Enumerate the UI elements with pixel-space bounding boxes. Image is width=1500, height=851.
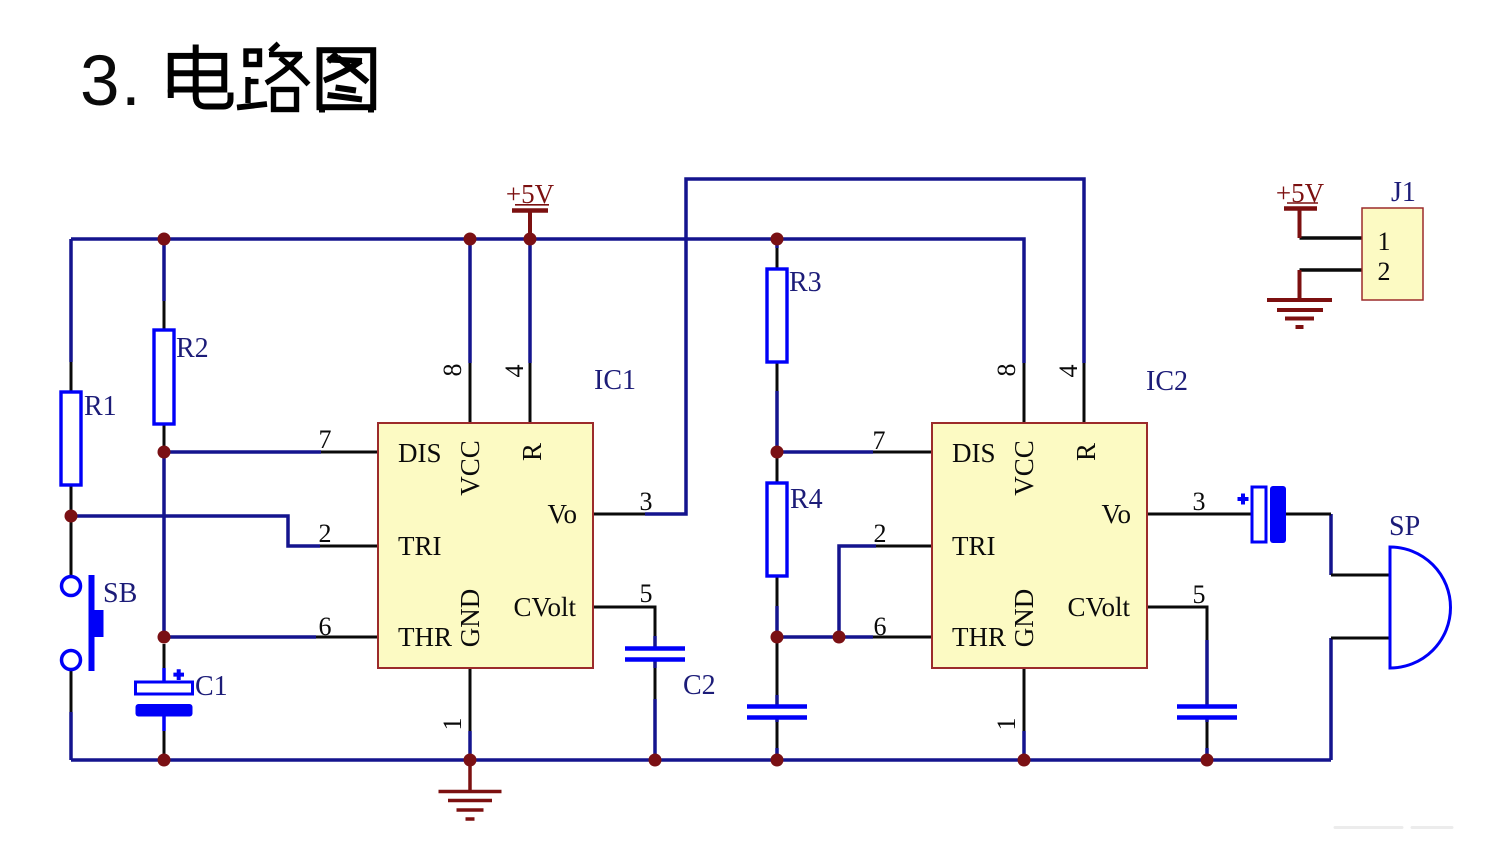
wire left branch down to R1 [69, 239, 73, 362]
+5V symbol at IC1 [512, 205, 549, 239]
node R1-TRI1 [65, 510, 78, 523]
node THR1-C1 [158, 631, 171, 644]
svg-text:8: 8 [992, 364, 1021, 377]
wire SB bottom to ground rail [69, 712, 73, 760]
wire R2 top lead [162, 239, 166, 301]
svg-text:2: 2 [319, 519, 332, 548]
wire speaker bottom stub [1331, 637, 1390, 640]
speaker SP [1390, 547, 1451, 668]
svg-text:4: 4 [500, 365, 529, 378]
svg-text:R4: R4 [790, 484, 823, 515]
node R4-THR2 [771, 631, 784, 644]
IC1 pin names [398, 438, 577, 652]
wire IC2 VCC pin8 stub [1023, 363, 1026, 423]
wire IC1 THR stub [316, 636, 378, 639]
resistor R3 [767, 269, 787, 362]
wire R4 bottom [775, 606, 779, 637]
IC2 pin numbers [873, 364, 1206, 731]
svg-text:IC2: IC2 [1146, 366, 1188, 397]
wire R2 leads [163, 301, 166, 452]
svg-text:THR: THR [952, 622, 1006, 652]
wire C4 to speaker top [1286, 514, 1390, 575]
wire THR1 horizontal [164, 635, 316, 639]
resistor R1 [61, 392, 81, 485]
wire R2 bottom down to THR1 node [162, 452, 166, 637]
black pin stubs and leads [71, 238, 1390, 754]
svg-text:SB: SB [103, 578, 137, 609]
node rail-R2 [158, 233, 171, 246]
svg-text:.: . [121, 42, 141, 121]
wire IC2 GND pin1 stub [1023, 668, 1026, 731]
+5V symbol at J1 [1284, 203, 1318, 238]
svg-text:C1: C1 [195, 671, 228, 702]
wire IC1 pin8 from rail [468, 239, 472, 363]
svg-text:3: 3 [1193, 487, 1206, 516]
svg-text:SP: SP [1389, 511, 1420, 542]
wire C3 stems [775, 695, 779, 760]
wire R4 leads [776, 452, 779, 606]
wire DIS2 horizontal [777, 450, 873, 454]
capacitor C4 electrolytic coupling [1238, 486, 1287, 543]
wire IC1 Vo pin3 stub [593, 513, 645, 516]
wire SB leads [70, 516, 73, 712]
node R2-DIS1 [158, 446, 171, 459]
resistor R2 [154, 330, 174, 424]
svg-text:TRI: TRI [398, 531, 442, 561]
svg-text:R3: R3 [789, 267, 822, 298]
wire R3 top lead [775, 239, 779, 248]
svg-text:7: 7 [873, 426, 886, 455]
svg-text:THR: THR [398, 622, 452, 652]
svg-text:3: 3 [80, 42, 120, 121]
svg-text:6: 6 [874, 612, 887, 641]
faint watermark remnants [1335, 826, 1452, 829]
node rail-C5 [1201, 754, 1214, 767]
node rail-pin8 IC1 [464, 233, 477, 246]
wire IC2 Vo pin3 stub to C4 [1147, 513, 1252, 516]
wire top +5V rail [71, 239, 1024, 363]
J1 pin numbers [1378, 227, 1391, 286]
wire IC1 VCC pin8 stub [469, 363, 472, 423]
svg-text:2: 2 [1378, 257, 1391, 286]
svg-text:1: 1 [992, 718, 1021, 731]
svg-text:DIS: DIS [952, 438, 996, 468]
svg-text:5: 5 [640, 579, 653, 608]
pushbutton SB [62, 575, 104, 671]
svg-text:6: 6 [319, 612, 332, 641]
wire IC1 DIS stub [321, 451, 378, 454]
IC1 pin numbers [319, 364, 653, 731]
title text "3." [80, 42, 141, 121]
wire IC2 DIS stub [873, 451, 932, 454]
wire R3 bottom to DIS2 node [775, 391, 779, 452]
wire C4 to speaker corner [1329, 514, 1333, 575]
resistor R4 [767, 483, 787, 576]
svg-text:R2: R2 [176, 333, 209, 364]
wire R2 bottom to DIS1 [164, 450, 321, 454]
svg-text:GND: GND [455, 589, 485, 648]
wire IC1 GND pin1 stub [469, 668, 472, 731]
svg-text:J1: J1 [1391, 177, 1416, 208]
svg-text:R: R [517, 443, 547, 461]
svg-text:DIS: DIS [398, 438, 442, 468]
wires (navy nets) [71, 179, 1331, 760]
svg-text:C2: C2 [683, 670, 716, 701]
title hanzi 图 [320, 50, 374, 112]
node TRI2 branch [833, 631, 846, 644]
wire IC2 CVolt pin5 stub and C5 lead [1147, 607, 1207, 748]
svg-text:R: R [1071, 443, 1101, 461]
svg-text:4: 4 [1054, 365, 1083, 378]
wire C5 stems [1205, 640, 1209, 760]
wire J1 pin2 [1300, 268, 1363, 272]
svg-text:+5V: +5V [1276, 178, 1325, 208]
svg-text:Vo: Vo [547, 499, 577, 529]
title hanzi 电 [171, 45, 231, 107]
svg-text:8: 8 [438, 364, 467, 377]
capacitor C2 [625, 649, 685, 660]
wire C1 leads [163, 644, 166, 754]
svg-text:3: 3 [640, 487, 653, 516]
ground under J1 [1267, 270, 1332, 327]
capacitor C5 [1177, 707, 1237, 718]
wire TRI2 vertical and horizontal [839, 546, 876, 637]
node rail +5V [524, 233, 537, 246]
wire node TRI1 net from R1 bottom [71, 516, 320, 546]
svg-text:VCC: VCC [1009, 440, 1039, 496]
svg-text:+5V: +5V [506, 179, 555, 209]
wire R1 leads [70, 362, 73, 516]
wire IC1 R pin4 stub [529, 363, 532, 423]
wire IC2 TRI stub [876, 545, 932, 548]
J1 box [1362, 208, 1423, 300]
wire IC1 GND to rail [468, 731, 472, 760]
IC1 box [378, 423, 593, 668]
wire speaker bottom to rail [1329, 638, 1333, 760]
IC2 box [932, 423, 1147, 668]
wire THR2 horizontal [777, 635, 873, 639]
capacitor C1 electrolytic [136, 668, 193, 731]
wire IC1 TRI stub [320, 545, 378, 548]
title hanzi 路 [237, 44, 309, 110]
node rail-C3 [771, 754, 784, 767]
wire IC2 GND to rail [1022, 731, 1026, 760]
node R3-DIS2 [771, 446, 784, 459]
node rail-GND2 [1018, 754, 1031, 767]
component reference labels [84, 177, 1420, 702]
wire Vo1 feedback to IC2 pin4 [645, 179, 1084, 514]
svg-text:1: 1 [1378, 227, 1391, 256]
ground under IC1 [439, 760, 502, 819]
svg-text:7: 7 [319, 425, 332, 454]
svg-text:5: 5 [1193, 580, 1206, 609]
wire C3 leads [776, 643, 779, 748]
node rail-GND1 [464, 754, 477, 767]
svg-text:R1: R1 [84, 391, 117, 422]
node rail-R3 [771, 233, 784, 246]
svg-text:CVolt: CVolt [513, 592, 576, 622]
wire IC2 R pin4 stub [1083, 363, 1086, 423]
wire C2 stems [653, 636, 657, 760]
svg-text:GND: GND [1009, 589, 1039, 648]
wire IC2 THR stub [873, 636, 932, 639]
svg-text:CVolt: CVolt [1067, 592, 1130, 622]
svg-text:1: 1 [438, 718, 467, 731]
svg-text:TRI: TRI [952, 531, 996, 561]
IC2 pin names [952, 438, 1131, 652]
wire IC1 pin4 from rail [528, 239, 532, 363]
svg-text:Vo: Vo [1101, 499, 1131, 529]
node rail-C2 [649, 754, 662, 767]
wire R3 leads [776, 248, 779, 391]
svg-text:IC1: IC1 [594, 365, 636, 396]
svg-text:2: 2 [874, 519, 887, 548]
capacitor C3 [747, 707, 807, 718]
wire J1 pin1 [1300, 236, 1363, 240]
svg-text:VCC: VCC [455, 440, 485, 496]
wire bottom ground rail [71, 758, 1331, 762]
wire IC1 CVolt pin5 stub and C2 lead [593, 607, 655, 699]
node rail-C1 [158, 754, 171, 767]
